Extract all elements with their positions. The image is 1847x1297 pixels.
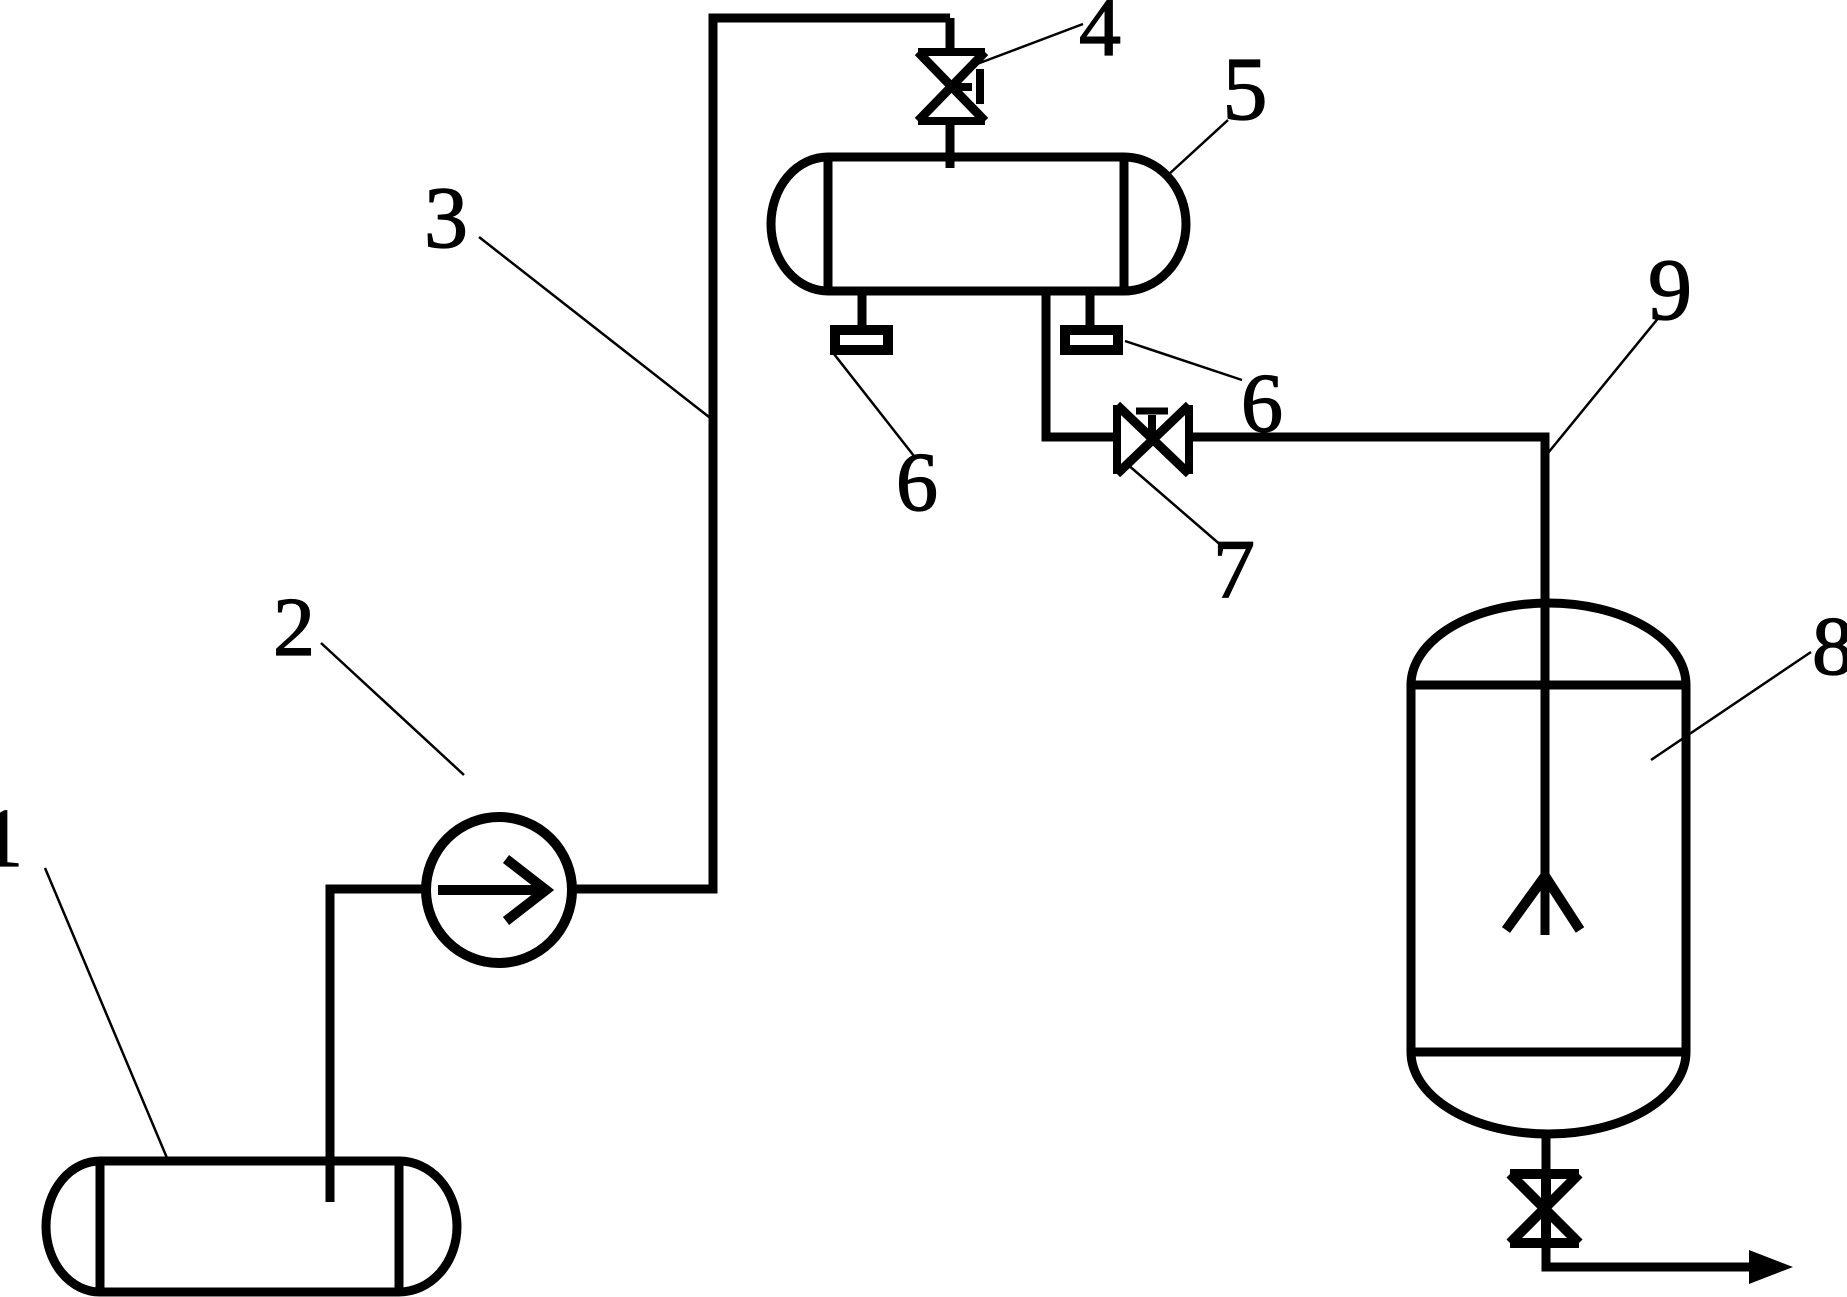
svg-text:3: 3 xyxy=(424,170,468,267)
arrowhead outlet xyxy=(1749,1250,1793,1284)
agitator impeller xyxy=(1506,876,1580,930)
wire stem into valve V4 xyxy=(946,18,955,52)
wire riser line 3 xyxy=(709,18,718,894)
leader line 2 xyxy=(321,643,464,775)
leader line 4 xyxy=(977,24,1083,64)
svg-text:2: 2 xyxy=(273,581,315,674)
wire top horizontal run xyxy=(709,14,951,23)
svg-text:8: 8 xyxy=(1812,600,1847,693)
wire valve V4 to drum D5 inlet xyxy=(946,121,955,168)
pump P2 xyxy=(426,817,572,963)
svg-text:7: 7 xyxy=(1213,523,1255,616)
valve V4 xyxy=(918,52,985,121)
wire pump discharge to riser xyxy=(572,885,713,894)
drum D5 xyxy=(771,157,1186,291)
nozzle stub right xyxy=(1086,291,1095,325)
pump P2 arrow xyxy=(438,859,546,921)
svg-text:6: 6 xyxy=(1241,357,1283,450)
svg-text:9: 9 xyxy=(1648,242,1692,339)
gauge box 6 left xyxy=(835,330,888,350)
wire valve V7 to reactor R8 line 9 xyxy=(1189,433,1545,442)
wire reactor R8 bottom outlet xyxy=(1542,1134,1551,1174)
leader line 5 xyxy=(1168,120,1228,175)
nozzle stub left xyxy=(858,291,867,325)
reactor R8 shell xyxy=(1411,603,1686,1134)
svg-text:4: 4 xyxy=(1079,0,1121,74)
leader line 8 xyxy=(1651,652,1811,760)
svg-text:5: 5 xyxy=(1223,40,1268,139)
svg-text:6: 6 xyxy=(896,436,938,529)
svg-text:1: 1 xyxy=(0,792,23,885)
wire tank T1 to pump suction xyxy=(330,889,427,1202)
valve V7 xyxy=(1117,405,1189,474)
leader line 1 xyxy=(45,868,167,1158)
leader line 6 right xyxy=(1125,341,1242,380)
wire outlet elbow with arrow xyxy=(1546,1244,1755,1267)
valve V10 bottom xyxy=(1510,1174,1579,1243)
leader line 9 xyxy=(1548,316,1660,453)
gauge box 6 right xyxy=(1065,330,1118,350)
wire line 9 drop / agitator shaft xyxy=(1541,433,1550,936)
tank T1 body xyxy=(46,1161,457,1292)
leader line 3 xyxy=(479,237,709,417)
wire drum D5 outlet to valve V7 xyxy=(1046,291,1116,437)
leader line 7 xyxy=(1127,464,1223,547)
leader line 6 left xyxy=(834,354,914,456)
